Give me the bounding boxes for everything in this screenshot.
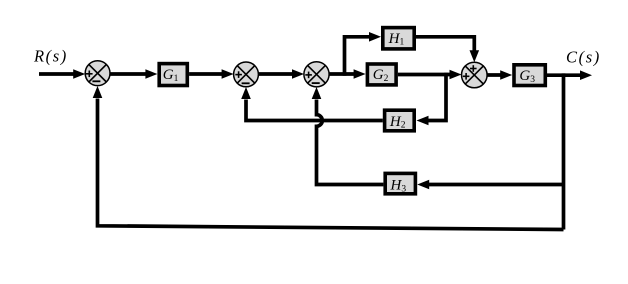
wire H2 output left then up into S2 bottom [241,87,383,121]
summing junction S2 [234,62,259,87]
wire input arrow into summing junction S1 [39,69,85,79]
svg-text:R(s): R(s) [33,47,68,66]
wire outer feedback loop bottom and up into S1 bottom [93,86,564,230]
wire S1 to G1 with arrowhead [109,69,157,79]
wire branch down from G2 output into H2 input [417,73,447,126]
wire G1 to S2 with arrowhead [189,69,234,79]
svg-text:C(s): C(s) [566,48,601,67]
block H1 [383,28,414,49]
wire S2 to S3 with arrowhead [259,69,305,79]
summing junction S3 [304,62,329,87]
wire S4 to G3 with arrowhead [487,70,512,80]
wire feedback takeoff from output down the right side [562,73,566,229]
summing junction S4 [462,62,488,88]
block H2 [385,110,415,131]
wire H3 output left then up into S3 bottom with hop over H2 line [312,87,384,185]
block G1 [159,64,187,86]
block H3 [385,173,415,194]
wire G2 to S4 with arrowhead [398,70,462,80]
block G3 [514,65,545,86]
wire S3 to G2 with arrowhead [329,69,366,79]
block G2 [367,64,396,85]
wire H1 output right then down into S4 top [416,37,479,62]
wire branch from node after S3 up and right into H1 [345,32,382,76]
wire branch into H3 input [417,180,563,190]
summing junction S1 [85,61,110,86]
wire G3 output to C(s) with arrowhead [545,70,592,80]
